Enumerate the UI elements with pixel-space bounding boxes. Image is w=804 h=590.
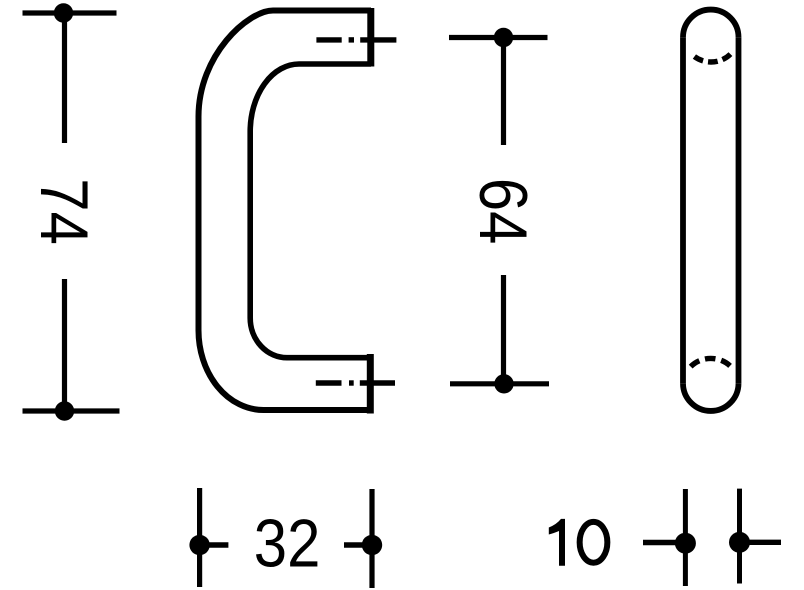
dimension 64: vertical dimension line upper segment [501, 38, 506, 146]
dimension 64: top dot [494, 28, 513, 47]
svg-text:32: 32 [254, 505, 321, 581]
handle side view: bottom fixing end face [367, 354, 374, 414]
dimension 10: left stub [643, 540, 685, 545]
handle front view: left edge [680, 37, 686, 383]
dimension 32: value label [254, 505, 321, 581]
dimension 64: bottom dot [494, 374, 513, 393]
handle side view: top fixing end face [367, 8, 374, 67]
dimension 74: vertical dimension line lower segment [62, 279, 67, 411]
dimension 10: right extension line [737, 489, 742, 584]
dimension 10: left extension line [683, 489, 688, 586]
dimension 32: left stub [200, 542, 229, 547]
handle front view: top hidden hole dashed arc [694, 54, 731, 62]
dimension 64: top extension tick [449, 35, 548, 40]
dimension 74: bottom extension tick [23, 408, 120, 413]
svg-text:74: 74 [26, 178, 102, 245]
dimension 64: vertical dimension line lower segment [501, 275, 506, 384]
dimension 10: right stub [740, 540, 782, 545]
handle front view: bottom hidden hole dashed arc [691, 358, 731, 366]
dimension 74: value label [26, 178, 102, 245]
dimension 32: right stub [344, 542, 372, 547]
dimension 32: right dot [362, 535, 382, 555]
bottom centerline long segment [360, 380, 395, 385]
dimension 74: bottom dot [55, 401, 74, 420]
dimension 74: top dot [54, 3, 73, 22]
dimension 64: value label [465, 178, 541, 245]
handle front view: top cap arc [683, 10, 739, 38]
dimension 32: right extension line [369, 489, 374, 588]
handle side view: inner contour [250, 64, 372, 358]
top centerline dash [316, 37, 341, 42]
svg-text:64: 64 [465, 178, 541, 245]
dimension 32: left extension line [197, 488, 202, 587]
handle front view: bottom cap arc [683, 383, 739, 411]
bottom centerline dot [349, 380, 354, 385]
dimension 10: right dot [729, 532, 750, 553]
top centerline long segment [360, 37, 396, 42]
handle side view: outer contour [198, 11, 371, 411]
dimension 32: left dot [189, 535, 209, 555]
top centerline dot [349, 37, 354, 42]
handle front view: right edge [736, 37, 742, 383]
dimension 10: value label [549, 519, 565, 566]
dimension 74: vertical dimension line upper segment [62, 13, 67, 143]
bottom centerline dash [316, 380, 342, 385]
dimension 64: bottom extension tick [450, 381, 549, 386]
dimension 10: left dot [675, 533, 696, 554]
dimension 74: top extension tick [23, 10, 117, 15]
